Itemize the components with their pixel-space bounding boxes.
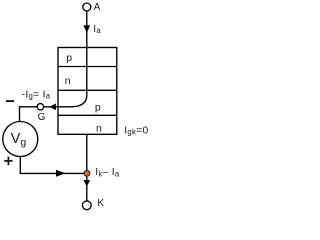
svg-text:n: n bbox=[65, 75, 71, 87]
terminal K bbox=[82, 201, 91, 210]
wire from G left to Vg source bbox=[20, 107, 38, 122]
wire from structure bottom down to cathode K bbox=[86, 134, 88, 201]
svg-text:p: p bbox=[66, 52, 72, 64]
voltage source Vg bbox=[3, 122, 38, 157]
junction line p/n (top) bbox=[58, 66, 117, 68]
terminal G bbox=[37, 104, 43, 110]
terminal A bbox=[83, 3, 91, 11]
svg-text:Ia: Ia bbox=[93, 24, 101, 35]
arrow Ik (pointing down) bbox=[84, 180, 91, 187]
svg-text:Igk=0: Igk=0 bbox=[124, 125, 148, 136]
svg-text:n: n bbox=[96, 123, 102, 135]
svg-text:A: A bbox=[94, 2, 101, 13]
wire from anode A down through structure, elbow to gate G bbox=[40, 11, 86, 107]
svg-text:-Ig= Ia: -Ig= Ia bbox=[22, 89, 51, 100]
wire from Vg bottom to cathode node bbox=[20, 157, 87, 173]
svg-text:Ik– Ia: Ik– Ia bbox=[95, 167, 120, 178]
junction line n/p (middle) bbox=[58, 89, 117, 91]
svg-text:G: G bbox=[38, 112, 46, 123]
four-layer pnpn structure box bbox=[58, 48, 117, 135]
minus polarity sign bbox=[6, 100, 14, 102]
junction node (orange dot) bbox=[84, 170, 90, 176]
junction line p/n (bottom) bbox=[58, 114, 117, 116]
arrow -Ig (gate current, pointing left) bbox=[49, 104, 56, 111]
svg-text:K: K bbox=[97, 198, 104, 209]
svg-text:p: p bbox=[95, 101, 101, 113]
plus polarity sign bbox=[4, 160, 12, 162]
arrow on bottom wire (pointing right) bbox=[56, 170, 65, 177]
arrow Ia (current into anode, pointing down) bbox=[84, 25, 91, 33]
